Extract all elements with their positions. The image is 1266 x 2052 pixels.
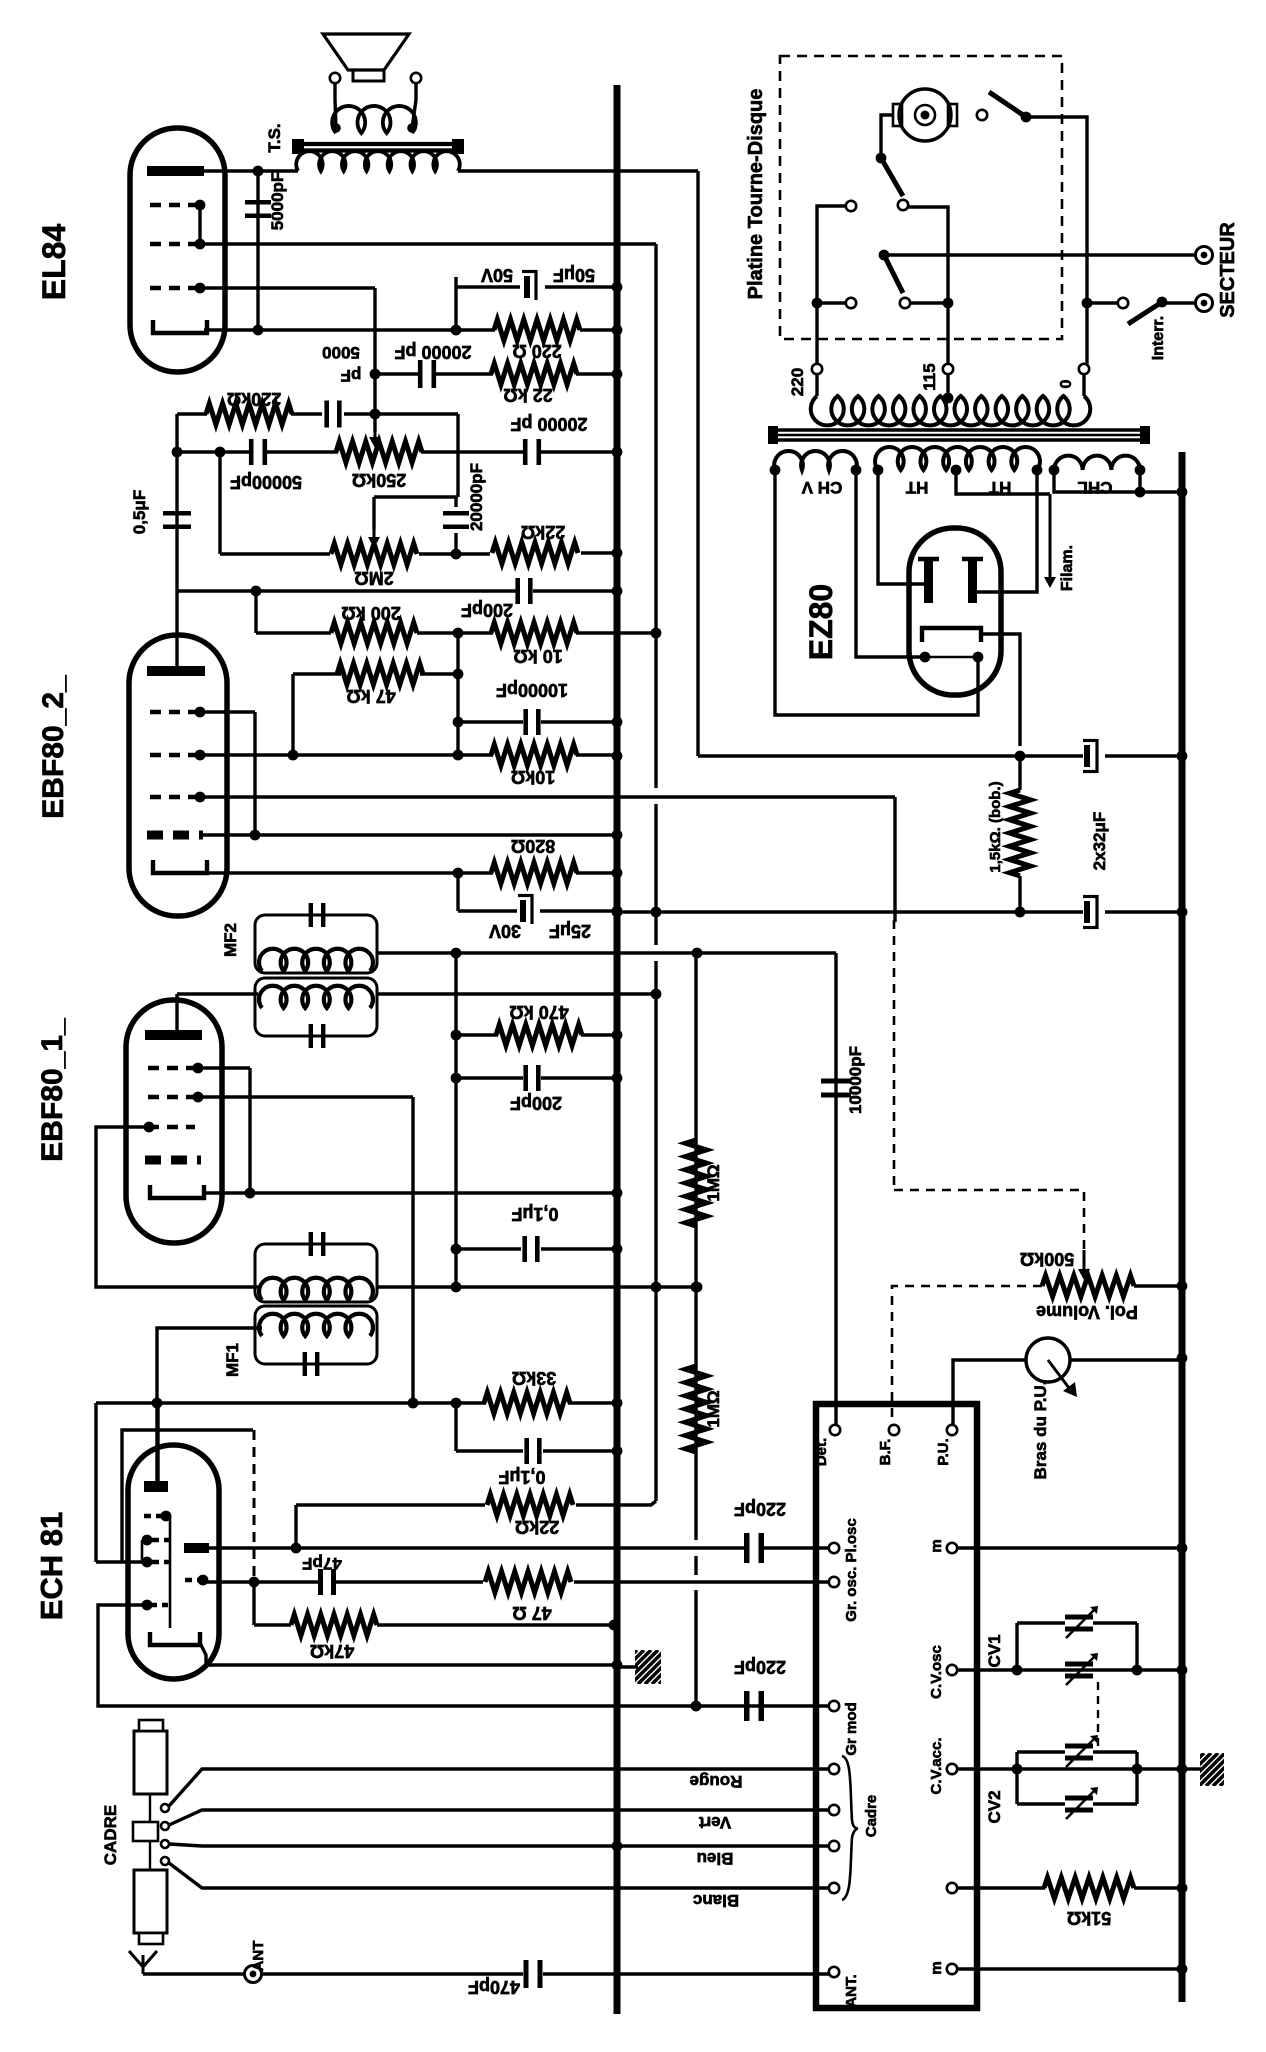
label CV2 (985, 1790, 1004, 1823)
label CH V (801, 478, 842, 497)
wire left contact b (817, 301, 846, 304)
wire ECH81 cathode lead (200, 1643, 206, 1665)
wire CHV to right heater (775, 470, 978, 715)
junction row912 bus (612, 907, 623, 918)
wire antenna to terminal (143, 1972, 245, 1975)
wire CV1 top b (1093, 1621, 1137, 1624)
junction cvosc bus (1177, 1665, 1188, 1676)
EBF80-2 grid b (150, 753, 197, 757)
wire x254 low (252, 1582, 255, 1625)
resistor 500k volume (1042, 1276, 1134, 1297)
capacitor 5000pF tone (327, 401, 340, 428)
junction row1193 bus (612, 1188, 623, 1199)
label 47k osc (310, 1641, 354, 1661)
coil MF2 primary (259, 949, 373, 971)
svg-text:T.S.: T.S. (265, 123, 284, 152)
wire cadre 1 (169, 1769, 829, 1806)
label 220pF osc (734, 1499, 786, 1519)
wire 200k-10k (417, 631, 493, 634)
label 0,1uF b (498, 1467, 545, 1487)
wire CV acc row (957, 1767, 1182, 1770)
wire 47pF to 47ohm (334, 1580, 483, 1583)
capacitor 2x32uF b (1083, 895, 1098, 929)
wire CV2 top (1017, 1750, 1065, 1753)
wire screen row (EBF80-2) (203, 833, 617, 836)
MF2 transformer can top (255, 915, 377, 973)
OT secondary right end (407, 123, 417, 133)
resistor 1M upper (686, 1140, 707, 1226)
wire AVC vertical b (654, 804, 657, 945)
wire g1 to tone network (373, 288, 376, 432)
capacitor 470pF (526, 1960, 540, 1988)
svg-text:47 Ω: 47 Ω (512, 1603, 551, 1623)
label Bras du P.U. (1031, 1381, 1050, 1480)
EZ80 heater pin R (973, 652, 984, 663)
junction 0,5uF row452 (172, 447, 183, 458)
junction row1287 AVC (651, 1282, 662, 1293)
label EZ80 (803, 584, 839, 660)
EBF80-1 grid b (148, 1095, 195, 1099)
label 33k (512, 1368, 556, 1388)
svg-text:Platine Tourne-Disque: Platine Tourne-Disque (745, 89, 767, 300)
svg-text:pF: pF (341, 366, 362, 385)
wire wiper cap branch (454, 497, 457, 507)
wire cap b to bus (1105, 910, 1182, 913)
label ECH81 (34, 1512, 69, 1621)
label 30V (489, 921, 521, 941)
label 0,5uF (130, 490, 149, 534)
HT left end (873, 465, 884, 476)
EBF80-2 heavy grid (147, 831, 203, 840)
transformer core (768, 426, 1150, 444)
label MF1 (223, 1343, 242, 1377)
svg-text:5000pF: 5000pF (268, 172, 287, 231)
wire HT feed vertical (696, 171, 699, 756)
junction AVC row633 (651, 628, 662, 639)
svg-text:500kΩ: 500kΩ (1020, 1249, 1074, 1269)
wire 200k row (256, 631, 331, 634)
ground stub right (1186, 1767, 1201, 1770)
terminal Gr osc (829, 1543, 839, 1553)
EZ80 cathode (922, 628, 981, 642)
bobinage block (816, 1404, 977, 2008)
label 5000pF (268, 172, 287, 231)
svg-text:SECTEUR: SECTEUR (1217, 222, 1239, 318)
svg-text:Dét.: Dét. (813, 1438, 830, 1466)
label SECTEUR (1217, 222, 1239, 318)
svg-text:EBF80_1_: EBF80_1_ (36, 1018, 69, 1162)
label m bottom (928, 1961, 945, 1974)
junction x456 row1035 (451, 1030, 462, 1041)
wire m to bus (957, 1546, 1182, 1549)
junction x458 row722 (453, 717, 464, 728)
wire anode row to HT corner (458, 169, 698, 172)
junction row633 x458 (453, 628, 464, 639)
label 47pF (302, 1554, 342, 1573)
speaker terminal left (330, 73, 340, 83)
label HT 1 (905, 478, 928, 497)
svg-text:200pF: 200pF (510, 1093, 562, 1113)
wire CV2 bottom (1017, 1802, 1065, 1805)
label ANT block (843, 1974, 860, 2007)
svg-text:50000pF: 50000pF (230, 472, 302, 492)
terminal cadre 2 (829, 1805, 839, 1815)
EL84 g3 pin dot (195, 200, 206, 211)
CHL left end (1049, 465, 1060, 476)
svg-text:0,1μF: 0,1μF (498, 1467, 545, 1487)
resistor 22k tone (492, 543, 578, 564)
terminal Gr mod (829, 1701, 839, 1711)
junction x817 row303 (812, 298, 823, 309)
svg-text:Vert: Vert (699, 1813, 731, 1832)
main chassis bus (614, 85, 621, 2014)
svg-text:33kΩ: 33kΩ (512, 1368, 556, 1388)
wire 47k row (293, 672, 341, 675)
arrow CV1 a (1066, 1606, 1098, 1638)
wire AVC vertical a (654, 244, 657, 788)
wire cap to 22k (436, 372, 493, 375)
wire 2M row (220, 552, 330, 555)
ECH81 g t pin (161, 1511, 172, 1522)
wire det cap to block (834, 1405, 837, 1425)
label 2x32uF (1090, 812, 1109, 871)
wire 0,1uF b to bus (543, 1449, 617, 1452)
wire ANT row (261, 1972, 523, 1975)
svg-text:50V: 50V (481, 265, 513, 285)
wire row452 to bus (541, 450, 617, 453)
wire CHL right down (1138, 470, 1141, 492)
svg-text:22kΩ: 22kΩ (515, 1517, 559, 1537)
cadre pin 4 (161, 1857, 169, 1865)
svg-text:ECH 81: ECH 81 (34, 1512, 69, 1621)
svg-text:1,5kΩ. (bob.): 1,5kΩ. (bob.) (987, 781, 1004, 872)
wire S3 contact right (910, 301, 948, 304)
wire 0,1uF to bus (541, 1247, 617, 1250)
svg-text:10000pF: 10000pF (496, 680, 568, 700)
svg-text:MF1: MF1 (223, 1343, 242, 1377)
wire cadre 2 (169, 1810, 829, 1825)
wire 47ohm to Pl.osc (574, 1580, 829, 1583)
label ANT (250, 1941, 267, 1972)
capacitor 200pF AVC (526, 1065, 539, 1091)
junction row1582 x254 (249, 1577, 260, 1588)
label 22k osc (515, 1517, 559, 1537)
ECH81 grid g1 (185, 1578, 200, 1582)
label CADRE (101, 1805, 120, 1865)
svg-text:Gr. osc. Pl.osc: Gr. osc. Pl.osc (843, 1518, 860, 1621)
wire g1 row (EBF80-2) (201, 710, 255, 713)
winding CH V (774, 451, 857, 470)
junction row994 AVC (651, 989, 662, 1000)
pot wiper arrow (1048, 1360, 1077, 1397)
tube ECH81 envelope (128, 1445, 219, 1679)
junction row1035 bus (612, 1030, 623, 1041)
svg-text:CV1: CV1 (985, 1634, 1004, 1667)
svg-text:10 kΩ: 10 kΩ (513, 646, 562, 666)
EL84 grid g2 (150, 242, 197, 246)
junction row912 AVC (651, 907, 662, 918)
wire det cap vertical (834, 953, 837, 1405)
wire x296 down (294, 1505, 297, 1548)
terminal m top (947, 1543, 957, 1553)
wire HT right to plate (977, 470, 1037, 592)
ECH81 triode anode bar (144, 1481, 168, 1492)
wire x255 g1-screen tie (253, 712, 256, 835)
resistor 47k (EBF80-2) (337, 664, 423, 685)
svg-text:220: 220 (788, 368, 807, 396)
terminal cadre 3 (829, 1841, 839, 1851)
capacitor MF2 bottom (311, 1024, 323, 1048)
terminal CV acc (947, 1764, 957, 1774)
tube EZ80 envelope (909, 528, 1001, 695)
arrow CV2 b (1066, 1787, 1098, 1819)
label 820 ohm (511, 836, 555, 856)
svg-text:m: m (928, 1539, 945, 1552)
wire EL84 anode to output transformer (204, 169, 298, 172)
EBF80-1 g pin b (193, 1092, 204, 1103)
label 10 kohm (513, 646, 562, 666)
svg-text:Cadre: Cadre (863, 1795, 880, 1838)
HT center tap (951, 465, 962, 476)
wire EBF80-1 g1 row (198, 1066, 250, 1069)
junction 50uF bus (612, 282, 623, 293)
junction row1 g1-line (370, 409, 381, 420)
arrow 250k wiper (369, 430, 381, 448)
EBF80-2 g pin a (195, 707, 206, 718)
svg-text:51kΩ: 51kΩ (1067, 1908, 1111, 1928)
label 1M upper (704, 1164, 723, 1201)
capacitor 10000pF (526, 709, 539, 735)
label T.S. (265, 123, 284, 152)
wire triode anode up (156, 1403, 159, 1481)
EBF80-2 g pin c (195, 792, 206, 803)
wire S1 to right branch (1026, 117, 1087, 364)
EBF80-1 grid c (148, 1125, 195, 1129)
contact left bottom (846, 298, 856, 308)
svg-text:250kΩ: 250kΩ (352, 470, 406, 490)
terminal secteur 2 (1196, 295, 1213, 312)
EBF80-1 heavy grid (145, 1156, 201, 1165)
wire 10000pF row (458, 720, 523, 723)
resistor 2M pot (331, 544, 417, 565)
wire det to pot wiper (894, 1190, 1084, 1252)
svg-text:47 kΩ: 47 kΩ (346, 686, 395, 706)
label CV1 (985, 1634, 1004, 1667)
wire tap0 to coil (1082, 374, 1085, 396)
ECH81 screen tie (141, 1540, 144, 1562)
junction capb bus (1177, 907, 1188, 918)
EBF80-2 cathode (153, 860, 207, 873)
wire x456 AVC chain (454, 953, 457, 1287)
wire g1 to cathode (248, 1068, 251, 1193)
junction x255 row835 (250, 830, 261, 841)
switch S3 (884, 255, 903, 293)
label Gr osc Pl osc (843, 1518, 860, 1621)
junction 51k bus (1177, 1883, 1188, 1894)
wire CV1 left (1015, 1623, 1018, 1670)
svg-text:Pol. Volume: Pol. Volume (1036, 1302, 1138, 1322)
junction bleu bus (612, 1841, 623, 1852)
wire heptode anode row (209, 1546, 744, 1549)
ECH81 heptode anode bar (184, 1543, 209, 1553)
junction HT row (1015, 751, 1026, 762)
wire CV2 top b (1093, 1750, 1137, 1753)
resistor 1M lower (686, 1366, 707, 1452)
terminal CV osc (947, 1665, 957, 1675)
ECH81 grid g osc (150, 1603, 168, 1607)
wire det down x895 (893, 797, 896, 922)
cadre middle (133, 1822, 158, 1841)
label 51k (1067, 1908, 1111, 1928)
label 220 (788, 368, 807, 396)
wire MF1 sec to osc anode (157, 1328, 262, 1485)
wire HT row to capa (1020, 754, 1083, 757)
junction row591 x256 (251, 586, 262, 597)
junction cathode/50uF (451, 325, 462, 336)
wire g2 down x413 (411, 1097, 414, 1403)
label 200pF AVC (510, 1093, 562, 1113)
capacitor CV2 a (1065, 1746, 1093, 1758)
EZ80 plate 1 (918, 559, 939, 603)
wire det row 797 (202, 795, 895, 798)
wire pot to right bus (1134, 1284, 1182, 1287)
svg-text:Interr.: Interr. (1150, 316, 1167, 360)
wire CV osc row (957, 1668, 1182, 1671)
terminal m bottom (947, 1964, 957, 1974)
capacitor 2x32uF a (1083, 739, 1098, 773)
junction x456 row1078 (451, 1073, 462, 1084)
capacitor 20000pF (g1) (420, 360, 434, 388)
terminal secteur 1 (1196, 247, 1213, 264)
wire CV1 top (1017, 1621, 1065, 1624)
EBF80-1 g pin c (144, 1122, 155, 1133)
wire EZ80 cathode out (981, 634, 1020, 746)
label CV osc (928, 1645, 945, 1699)
wire cadre 3 (169, 1844, 829, 1846)
terminal cadre 4 (829, 1883, 839, 1893)
wire screen row into tube (96, 1560, 147, 1563)
capacitor CV1 a (1065, 1617, 1093, 1629)
svg-text:MF2: MF2 (221, 923, 240, 957)
wire 0,1uF row (456, 1247, 521, 1250)
junction cvacc 1017 (1012, 1764, 1023, 1775)
wire wiper to 2M arrow (372, 497, 375, 530)
junction row755 bus (612, 751, 623, 762)
svg-text:0,1μF: 0,1μF (511, 1204, 558, 1224)
label 250k (352, 470, 406, 490)
coil MF2 secondary (259, 986, 373, 1008)
wire cathode row (EBF80-2) (207, 871, 493, 874)
wire pot right (1070, 1358, 1182, 1361)
svg-text:0: 0 (1058, 379, 1075, 388)
ECH81 g h2 pin (142, 1535, 153, 1546)
label 20000pF vertical (467, 463, 486, 531)
EZ80 heater (925, 656, 978, 659)
svg-text:10000pF: 10000pF (846, 1046, 865, 1114)
wire 51k row (957, 1886, 1045, 1889)
MF1 transformer can top (255, 1244, 377, 1302)
label 10000pF (496, 680, 568, 700)
junction 1M mid (691, 1282, 702, 1293)
S2 contact (898, 200, 908, 210)
svg-text:5000: 5000 (322, 343, 360, 362)
label 22k tone (521, 522, 565, 542)
wire EL84 g1 row (201, 286, 375, 289)
resistor 47 ohm (485, 1572, 571, 1593)
S2 pivot (876, 153, 887, 164)
svg-text:2x32μF: 2x32μF (1090, 812, 1109, 871)
switch interr (1128, 302, 1162, 324)
wire 25uF row (458, 909, 517, 912)
svg-text:200 kΩ: 200 kΩ (341, 603, 400, 623)
interr pivot (1157, 297, 1168, 308)
coil MF1 secondary (259, 1314, 373, 1336)
svg-text:m: m (928, 1961, 945, 1974)
EZ80 plate 2 (962, 559, 983, 603)
capacitor 10000pF det (821, 1081, 851, 1095)
ECH81 g h4 pin (142, 1557, 153, 1568)
junction CHL bus (1177, 487, 1188, 498)
label P.U. (935, 1438, 952, 1465)
ECH81 inner tie (169, 1516, 172, 1628)
cadre pin 2 (161, 1822, 169, 1830)
svg-text:EBF80_2_: EBF80_2_ (37, 675, 70, 819)
junction row1078 bus (612, 1073, 623, 1084)
wire cap to 2M row (454, 533, 457, 554)
output transformer primary (296, 151, 460, 171)
wire 22k to bus (576, 372, 617, 375)
wire speaker right lead (412, 83, 416, 128)
svg-text:22kΩ: 22kΩ (521, 522, 565, 542)
ECH81 grid t (144, 1514, 162, 1518)
brace cadre (842, 1756, 858, 1900)
EBF80-2 grid a (150, 710, 197, 714)
arrow CV1 b (1066, 1653, 1098, 1685)
wire row452 c (421, 450, 523, 453)
label CV acc (928, 1738, 945, 1795)
wire 470k row (456, 1033, 498, 1036)
capacitor 220pF osc (747, 1533, 762, 1563)
EL84 g1 pin dot (195, 283, 206, 294)
junction row1287 x456 (451, 1282, 462, 1293)
wire 220pF to Gr.osc (764, 1546, 829, 1549)
resistor 820 ohm (491, 863, 577, 884)
tap 220 (812, 364, 822, 374)
svg-text:1MΩ: 1MΩ (704, 1164, 723, 1201)
label EL84 (36, 224, 72, 301)
label Cadre block (863, 1795, 880, 1838)
label Blanc (693, 1891, 739, 1910)
capacitor 50uF (522, 270, 537, 300)
junction g1/cathode (245, 1188, 256, 1199)
junction capa bus (1177, 751, 1188, 762)
transformer primary coil (811, 396, 1090, 425)
wire row452 b (267, 450, 338, 453)
label HT 2 (988, 478, 1011, 497)
wire EL84 cathode row (204, 328, 495, 331)
junction x1087 row303 (1082, 298, 1093, 309)
junction x293 row755 (288, 750, 299, 761)
junction row953 x456 (451, 948, 462, 959)
svg-text:P.U.: P.U. (935, 1438, 952, 1465)
tap 0 (1079, 364, 1089, 374)
svg-text:Filam.: Filam. (1059, 545, 1076, 591)
EL84 g3 tie wire (198, 205, 201, 244)
capacitor 50000pF (251, 439, 265, 465)
svg-text:30V: 30V (489, 921, 521, 941)
wire 47k osc to bus (377, 1623, 617, 1626)
arrow CV2 a (1066, 1735, 1098, 1767)
